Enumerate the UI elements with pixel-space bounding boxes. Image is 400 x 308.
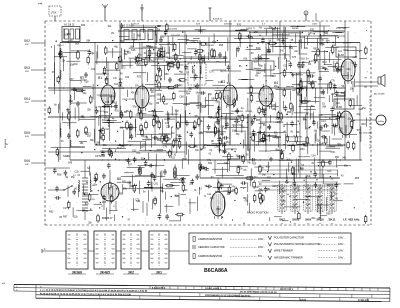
svg-text:AIR/CERAMIC TRIMMER: AIR/CERAMIC TRIMMER <box>274 257 303 260</box>
svg-text:R16: R16 <box>343 50 348 52</box>
svg-text:C67: C67 <box>272 76 277 78</box>
svg-text:46p: 46p <box>267 127 272 130</box>
svg-text:43.65: 43.65 <box>336 28 342 30</box>
svg-text:10•: 10• <box>96 235 99 237</box>
svg-text:••••: •••• <box>281 223 284 225</box>
svg-text:10%/...: 10%/... <box>258 239 266 241</box>
svg-text:C17: C17 <box>63 208 68 210</box>
svg-text:S23: S23 <box>132 150 137 153</box>
svg-text:C58: C58 <box>125 160 130 162</box>
svg-text:C76: C76 <box>209 71 214 73</box>
svg-text:58n: 58n <box>320 92 325 95</box>
svg-text:C35: C35 <box>75 171 80 173</box>
svg-text:1005: 1005 <box>312 24 318 26</box>
svg-text:••••: •••• <box>294 223 297 225</box>
svg-text:10•: 10• <box>151 235 154 237</box>
svg-text:C72: C72 <box>145 139 150 142</box>
svg-text:AD 3700M: AD 3700M <box>374 93 385 96</box>
svg-text:R63: R63 <box>361 124 366 126</box>
svg-text:R70: R70 <box>237 25 242 27</box>
svg-text:40•: 40• <box>123 249 126 251</box>
svg-text:P.J.E G H M B D: P.J.E G H M B D <box>205 288 222 290</box>
svg-text:SK5: SK5 <box>24 131 30 135</box>
svg-text:C2020 20: C2020 20 <box>122 99 132 101</box>
svg-text:S75: S75 <box>292 57 297 59</box>
svg-text:16p: 16p <box>170 65 175 68</box>
svg-text:10%/..: 10%/.. <box>338 251 345 253</box>
svg-text:12n: 12n <box>220 133 225 136</box>
svg-text:I.F. 452 kHz: I.F. 452 kHz <box>343 218 360 222</box>
svg-text:kΩ: kΩ <box>2 283 5 285</box>
svg-text:40•: 40• <box>96 249 99 251</box>
svg-text:20•: 20• <box>68 239 71 241</box>
svg-text:S4I: S4I <box>149 46 153 49</box>
svg-text:R58: R58 <box>57 174 62 177</box>
svg-text:S50: S50 <box>208 163 213 165</box>
svg-text:R42: R42 <box>74 64 79 66</box>
svg-text:R99: R99 <box>287 112 292 114</box>
svg-text:R13: R13 <box>171 158 176 160</box>
svg-text:C18: C18 <box>244 116 249 119</box>
svg-text:C81: C81 <box>154 182 159 185</box>
svg-text:C66: C66 <box>69 100 74 103</box>
svg-text:SK10: SK10 <box>316 218 324 222</box>
svg-text:S12: S12 <box>286 61 291 63</box>
svg-text:56p: 56p <box>304 144 309 147</box>
svg-text:72n: 72n <box>322 67 327 70</box>
svg-text:70•: 70• <box>96 263 99 265</box>
svg-text:R23: R23 <box>137 77 142 79</box>
svg-text:C75: C75 <box>199 133 204 135</box>
svg-text:A3 118 25: A3 118 25 <box>64 24 75 27</box>
svg-text:S35: S35 <box>319 115 324 117</box>
svg-text:R78: R78 <box>150 96 155 98</box>
svg-text:10%/...: 10%/... <box>338 238 346 240</box>
svg-text:41n: 41n <box>212 40 217 43</box>
svg-text:CONTINMARK OV 87 DESCRIBED: CONTINMARK OV 87 DESCRIBED 229.58 21 <box>205 294 251 297</box>
svg-text:R10: R10 <box>256 47 261 50</box>
svg-text:95p: 95p <box>175 109 180 112</box>
svg-text:30•: 30• <box>123 244 126 246</box>
svg-text:C43: C43 <box>321 120 326 123</box>
svg-text:C46: C46 <box>105 102 110 104</box>
svg-text:1051/452: 1051/452 <box>171 35 181 37</box>
svg-text:S2S/452: S2S/452 <box>206 45 215 47</box>
svg-text:57p: 57p <box>133 105 138 108</box>
svg-text:S41: S41 <box>280 51 285 53</box>
svg-text:60•: 60• <box>151 258 154 260</box>
svg-text:POLYESTER/POLYWOVEN CAPACITOR: POLYESTER/POLYWOVEN CAPACITOR <box>274 243 321 246</box>
svg-text:SK9: SK9 <box>305 218 311 222</box>
svg-text:C47: C47 <box>164 104 169 106</box>
svg-text:B1: B1 <box>98 76 102 80</box>
svg-text:CARBON RESISTOR: CARBON RESISTOR <box>198 238 222 241</box>
svg-text:S95: S95 <box>156 95 161 97</box>
svg-text:10•: 10• <box>123 235 126 237</box>
svg-text:••••: •••• <box>331 223 334 225</box>
svg-text:C25: C25 <box>136 64 141 66</box>
svg-text:SK3: SK3 <box>24 66 30 70</box>
svg-text:RADIO POSITION: RADIO POSITION <box>247 211 268 215</box>
svg-text:C64: C64 <box>311 156 316 158</box>
svg-text:S45: S45 <box>68 162 73 164</box>
svg-text:S58: S58 <box>215 101 220 104</box>
svg-text:G.C: G.C <box>336 103 340 105</box>
svg-text:R19: R19 <box>104 112 109 114</box>
svg-text:80080: 80080 <box>255 57 263 61</box>
svg-text:S42: S42 <box>227 83 232 85</box>
svg-text:C29: C29 <box>166 126 171 129</box>
svg-text:R53: R53 <box>223 152 228 154</box>
svg-text:S18: S18 <box>301 57 306 60</box>
svg-text:B3: B3 <box>221 80 225 84</box>
svg-text:G 4 M 6 F.J 2: G 4 M 6 F.J 2 <box>280 288 294 291</box>
svg-text:S72: S72 <box>121 68 126 70</box>
svg-text:B4: B4 <box>274 81 278 85</box>
svg-text:64152 71: 64152 71 <box>246 28 256 30</box>
svg-text:50•: 50• <box>68 253 71 255</box>
svg-text:S54: S54 <box>289 47 294 50</box>
svg-text:S93: S93 <box>309 113 314 116</box>
svg-text:S65: S65 <box>249 46 254 48</box>
svg-text:S2S: S2S <box>196 24 201 26</box>
svg-text:24p: 24p <box>267 51 272 54</box>
svg-text:CERAMIC CAPACITOR: CERAMIC CAPACITOR <box>198 246 225 249</box>
svg-text:R48: R48 <box>124 50 129 53</box>
svg-text:S14: S14 <box>114 84 119 86</box>
svg-text:6 4.6.62 BF 4: 6 4.6.62 BF 4 <box>152 287 166 290</box>
svg-text:43.65.71: 43.65.71 <box>343 43 352 45</box>
svg-text:D: D <box>305 11 307 15</box>
svg-text:S58: S58 <box>335 157 340 159</box>
svg-text:54p: 54p <box>324 32 329 35</box>
svg-text:3M6+2: 3M6+2 <box>57 45 65 47</box>
svg-text:C78: C78 <box>338 128 343 131</box>
svg-text:R31: R31 <box>115 111 120 113</box>
svg-text:R32: R32 <box>122 181 127 183</box>
svg-text:WIRE TRIMMER: WIRE TRIMMER <box>274 250 293 253</box>
svg-text:R69: R69 <box>355 178 360 180</box>
svg-text:S84: S84 <box>86 40 91 42</box>
svg-text:20•: 20• <box>96 239 99 241</box>
svg-text:11n: 11n <box>141 145 145 148</box>
svg-text:A3 119 21: A3 119 21 <box>114 87 125 90</box>
svg-text:B7: B7 <box>227 192 231 196</box>
svg-text:35n: 35n <box>319 143 324 146</box>
svg-text:R66: R66 <box>326 213 331 215</box>
svg-text:AD 3700 ZM: AD 3700 ZM <box>359 132 371 135</box>
svg-text:64152 71: 64152 71 <box>236 30 246 32</box>
svg-text:S37: S37 <box>254 62 259 64</box>
svg-text:20•: 20• <box>151 239 154 241</box>
svg-text:R62: R62 <box>49 211 54 214</box>
svg-text:SK6: SK6 <box>24 159 30 163</box>
svg-text:R63: R63 <box>113 103 118 105</box>
svg-text:SK2: SK2 <box>24 39 30 43</box>
svg-text:B2: B2 <box>150 88 154 92</box>
svg-text:POLYESTER CAPACITOR: POLYESTER CAPACITOR <box>274 237 304 240</box>
svg-text:SK7: SK7 <box>279 218 285 222</box>
svg-text:10•: 10• <box>68 235 71 237</box>
svg-text:SK8: SK8 <box>292 218 298 222</box>
svg-text:50•: 50• <box>96 253 99 255</box>
svg-text:R50: R50 <box>208 117 213 119</box>
svg-text:B6CA86A: B6CA86A <box>204 268 228 274</box>
svg-text:60•: 60• <box>123 258 126 260</box>
svg-text:R63: R63 <box>313 49 318 51</box>
svg-text:OV 87 DESCRIBED 229.58: OV 87 DESCRIBED 229.58 21 84 4.6 <box>240 291 278 294</box>
svg-text:S27: S27 <box>128 165 133 167</box>
svg-text:R42: R42 <box>256 73 261 75</box>
svg-text:R51: R51 <box>300 149 305 151</box>
svg-text:A3 118 25: A3 118 25 <box>122 24 134 28</box>
svg-text:70•: 70• <box>123 263 126 265</box>
svg-text:70•: 70• <box>68 263 71 265</box>
svg-text:R68: R68 <box>202 107 207 109</box>
svg-text:SK4: SK4 <box>24 97 30 101</box>
svg-text:52S/452: 52S/452 <box>160 57 169 59</box>
svg-text:EL86: EL86 <box>336 106 342 109</box>
svg-text:SK1: SK1 <box>63 154 68 158</box>
svg-text:60•: 60• <box>96 258 99 260</box>
svg-text:C36: C36 <box>331 152 336 154</box>
svg-text:G.C: G.C <box>338 51 342 53</box>
svg-text:10%/...: 10%/... <box>258 247 266 249</box>
svg-text:C41: C41 <box>91 69 96 71</box>
svg-text:CR 58 00: CR 58 00 <box>95 155 106 158</box>
svg-text:R33: R33 <box>81 25 86 27</box>
svg-text:50•: 50• <box>151 253 154 255</box>
svg-text:57 84 5: 57 84 5 <box>97 111 105 113</box>
svg-text:B8: B8 <box>117 177 121 181</box>
svg-text:30•: 30• <box>68 244 71 246</box>
svg-text:C67: C67 <box>82 79 87 82</box>
svg-text:N 462.303: N 462.303 <box>358 299 370 302</box>
svg-text:C75: C75 <box>135 199 140 202</box>
svg-text:40•: 40• <box>151 249 154 251</box>
svg-text:S33: S33 <box>308 32 313 35</box>
svg-text:C42: C42 <box>125 77 130 79</box>
svg-text:1051/452: 1051/452 <box>168 29 178 31</box>
svg-text:52S/452: 52S/452 <box>224 24 233 26</box>
svg-text:30•: 30• <box>151 244 154 246</box>
svg-text:C92: C92 <box>191 41 196 43</box>
svg-text:50•: 50• <box>123 253 126 255</box>
svg-text:29p: 29p <box>297 83 302 86</box>
svg-text:C53: C53 <box>198 31 203 33</box>
svg-text:70•: 70• <box>151 263 154 265</box>
svg-text:68n: 68n <box>326 40 331 43</box>
svg-text:••••: •••• <box>307 223 310 225</box>
svg-text:C98: C98 <box>214 146 219 149</box>
svg-text:S4S: S4S <box>131 49 136 52</box>
svg-text:24n: 24n <box>224 162 229 165</box>
svg-text:S36: S36 <box>153 200 158 202</box>
svg-text:30•: 30• <box>96 244 99 246</box>
svg-text:EL86: EL86 <box>338 54 344 57</box>
svg-text:B680B-07: B680B-07 <box>102 217 113 220</box>
svg-text:68p: 68p <box>81 116 86 119</box>
svg-text:17SK: 17SK <box>51 12 57 15</box>
svg-text:S89: S89 <box>164 74 169 76</box>
svg-text:C67: C67 <box>69 79 74 81</box>
svg-text:R82: R82 <box>137 36 142 38</box>
svg-text:10%/...: 10%/... <box>338 244 346 246</box>
svg-text:48n: 48n <box>120 114 125 117</box>
svg-text:R20: R20 <box>252 163 257 165</box>
svg-text:C76: C76 <box>163 147 168 149</box>
svg-text:R67: R67 <box>292 90 297 92</box>
svg-text:R84: R84 <box>186 94 191 96</box>
svg-text:17p: 17p <box>277 121 282 124</box>
svg-text:R67: R67 <box>63 215 68 218</box>
svg-text:••••: •••• <box>319 223 322 225</box>
svg-text:B0080: B0080 <box>292 28 299 30</box>
svg-text:10%/...: 10%/... <box>338 258 346 260</box>
svg-text:1.6.52: 1.6.52 <box>300 299 307 301</box>
svg-text:SK11: SK11 <box>328 218 335 222</box>
svg-text:S70: S70 <box>327 171 332 173</box>
svg-text:R95: R95 <box>219 45 224 47</box>
svg-text:20•: 20• <box>123 239 126 241</box>
svg-text:R10: R10 <box>102 202 107 204</box>
svg-text:B6CA86A: B6CA86A <box>4 138 7 148</box>
svg-text:S32: S32 <box>342 28 347 30</box>
svg-text:40•: 40• <box>68 249 71 251</box>
svg-text:CARBON RESISTOR: CARBON RESISTOR <box>198 255 222 258</box>
svg-text:75p: 75p <box>147 55 152 58</box>
svg-text:A3118.2x: A3118.2x <box>213 18 223 21</box>
svg-text:R75: R75 <box>249 38 254 40</box>
svg-text:R12: R12 <box>322 62 327 64</box>
svg-text:60•: 60• <box>68 258 71 260</box>
svg-text:5%/...: 5%/... <box>258 256 264 258</box>
